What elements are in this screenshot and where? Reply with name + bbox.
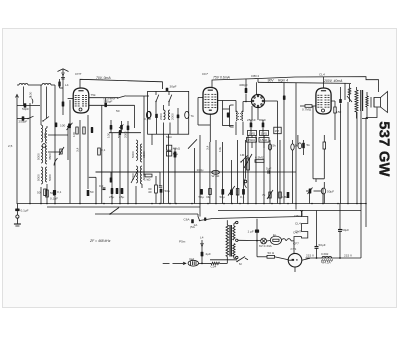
svg-text:B: B — [30, 95, 32, 99]
svg-text:400pF: 400pF — [239, 83, 248, 87]
svg-text:L4: L4 — [65, 83, 69, 87]
svg-text:40: 40 — [148, 190, 152, 194]
svg-text:CH7: CH7 — [75, 72, 81, 76]
svg-text:100μ: 100μ — [197, 168, 204, 172]
svg-text:0,2: 0,2 — [99, 184, 104, 188]
svg-text:ZF = 468 kHz: ZF = 468 kHz — [89, 239, 111, 243]
svg-text:7k: 7k — [262, 193, 266, 197]
svg-text:100: 100 — [72, 132, 76, 137]
svg-text:0.7MΩ: 0.7MΩ — [302, 108, 312, 112]
svg-text:5000: 5000 — [37, 153, 41, 160]
svg-text:1 μF: 1 μF — [248, 230, 254, 234]
svg-text:200V, 40mA: 200V, 40mA — [323, 79, 343, 83]
svg-text:3,4: 3,4 — [206, 145, 210, 150]
svg-text:CBC1: CBC1 — [251, 74, 260, 78]
svg-text:2000: 2000 — [170, 113, 174, 120]
svg-text:5k: 5k — [273, 144, 277, 148]
svg-text:Ei: Ei — [273, 233, 276, 237]
svg-text:215 V: 215 V — [344, 254, 353, 258]
svg-text:5μF: 5μF — [266, 167, 272, 171]
svg-text:50μ: 50μ — [165, 189, 170, 193]
svg-text:6V 0.33A: 6V 0.33A — [259, 244, 273, 248]
svg-text:5k: 5k — [307, 143, 311, 147]
svg-text:CBC1: CBC1 — [294, 214, 303, 218]
svg-text:W 4Ω: W 4Ω — [212, 174, 221, 178]
svg-text:250pF: 250pF — [19, 120, 28, 124]
svg-text:0,1μF: 0,1μF — [50, 197, 58, 201]
svg-text:250pF: 250pF — [247, 118, 256, 122]
svg-text:3ad: 3ad — [189, 257, 194, 261]
svg-text:50μF: 50μF — [327, 190, 334, 194]
svg-text:5000: 5000 — [48, 174, 52, 181]
svg-text:100: 100 — [107, 133, 111, 138]
svg-text:3M: 3M — [206, 195, 211, 199]
svg-text:5kΩ: 5kΩ — [166, 135, 172, 139]
svg-text:25μ: 25μ — [119, 195, 124, 199]
svg-text:CF7: CF7 — [202, 72, 208, 76]
svg-text:0,1μF: 0,1μF — [21, 209, 29, 213]
svg-text:2,5: 2,5 — [8, 144, 13, 148]
svg-text:5000: 5000 — [131, 151, 135, 158]
svg-text:P5m: P5m — [179, 240, 186, 244]
svg-text:2000: 2000 — [123, 131, 127, 138]
svg-text:0,1: 0,1 — [240, 195, 245, 199]
svg-text:C34: C34 — [211, 265, 217, 269]
svg-text:1M: 1M — [240, 153, 245, 157]
svg-text:90V: 90V — [268, 78, 275, 82]
svg-text:2000: 2000 — [159, 113, 163, 120]
svg-text:50: 50 — [90, 190, 94, 194]
svg-text:50μ: 50μ — [199, 195, 204, 199]
svg-text:80pF: 80pF — [259, 118, 266, 122]
svg-text:3,4: 3,4 — [76, 147, 80, 152]
svg-text:0.5MΩ: 0.5MΩ — [255, 156, 265, 160]
svg-text:50: 50 — [37, 191, 41, 195]
svg-text:500: 500 — [43, 133, 47, 138]
svg-text:215 V: 215 V — [306, 254, 315, 258]
svg-text:25μ: 25μ — [109, 195, 114, 199]
svg-text:70V, 0mA: 70V, 0mA — [96, 76, 111, 80]
svg-text:0,1: 0,1 — [57, 190, 62, 194]
svg-text:50: 50 — [116, 109, 120, 113]
svg-text:1 kΩ: 1 kΩ — [144, 178, 151, 182]
svg-text:50pF: 50pF — [22, 107, 29, 111]
svg-text:CL4: CL4 — [319, 73, 325, 77]
svg-text:3500: 3500 — [142, 151, 146, 158]
svg-text:50μF: 50μF — [319, 243, 326, 247]
svg-text:C302: C302 — [321, 252, 329, 256]
svg-text:50: 50 — [50, 191, 54, 195]
svg-text:537 GW: 537 GW — [375, 121, 391, 176]
svg-text:50μ: 50μ — [220, 195, 225, 199]
svg-text:50 Ω: 50 Ω — [268, 251, 275, 255]
svg-text:50μF: 50μF — [342, 228, 349, 232]
svg-text:5000: 5000 — [37, 174, 41, 181]
svg-text:500pF: 500pF — [104, 99, 113, 103]
svg-text:1MΩ: 1MΩ — [261, 131, 268, 135]
svg-text:C6A: C6A — [184, 218, 191, 222]
svg-text:1M: 1M — [275, 129, 280, 133]
svg-text:0,1: 0,1 — [101, 148, 106, 152]
svg-text:L4: L4 — [200, 236, 204, 240]
svg-text:M: M — [239, 262, 242, 266]
svg-text:7k: 7k — [191, 114, 195, 118]
svg-text:1MΩ: 1MΩ — [249, 131, 256, 135]
svg-text:3500: 3500 — [48, 153, 52, 160]
svg-text:45kΩ: 45kΩ — [173, 147, 181, 151]
svg-text:45kΩ: 45kΩ — [248, 138, 256, 142]
svg-text:75V 0.6mA: 75V 0.6mA — [213, 76, 231, 80]
svg-text:75k: 75k — [91, 93, 96, 97]
svg-text:30pF: 30pF — [170, 85, 177, 89]
svg-text:100: 100 — [60, 124, 65, 128]
svg-text:10k: 10k — [218, 147, 222, 152]
svg-text:Rgm 4: Rgm 4 — [278, 78, 288, 82]
svg-text:2μF: 2μF — [206, 252, 212, 256]
svg-text:CH7: CH7 — [295, 229, 301, 233]
svg-text:CL4: CL4 — [295, 222, 301, 226]
svg-text:4x4,5A: 4x4,5A — [321, 261, 332, 265]
